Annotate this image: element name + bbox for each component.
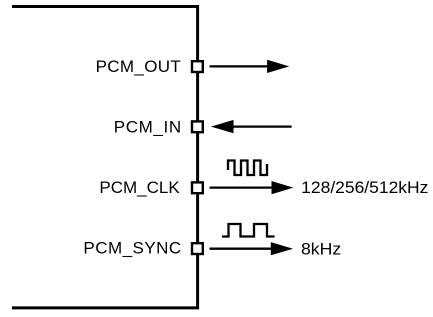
svg-text:PCM_OUT: PCM_OUT (96, 57, 181, 76)
svg-text:PCM_IN: PCM_IN (114, 117, 182, 136)
svg-text:PCM_SYNC: PCM_SYNC (83, 238, 181, 257)
svg-text:PCM_CLK: PCM_CLK (99, 178, 180, 197)
svg-text:8kHz: 8kHz (301, 239, 341, 258)
svg-text:128/256/512kHz: 128/256/512kHz (301, 178, 428, 197)
